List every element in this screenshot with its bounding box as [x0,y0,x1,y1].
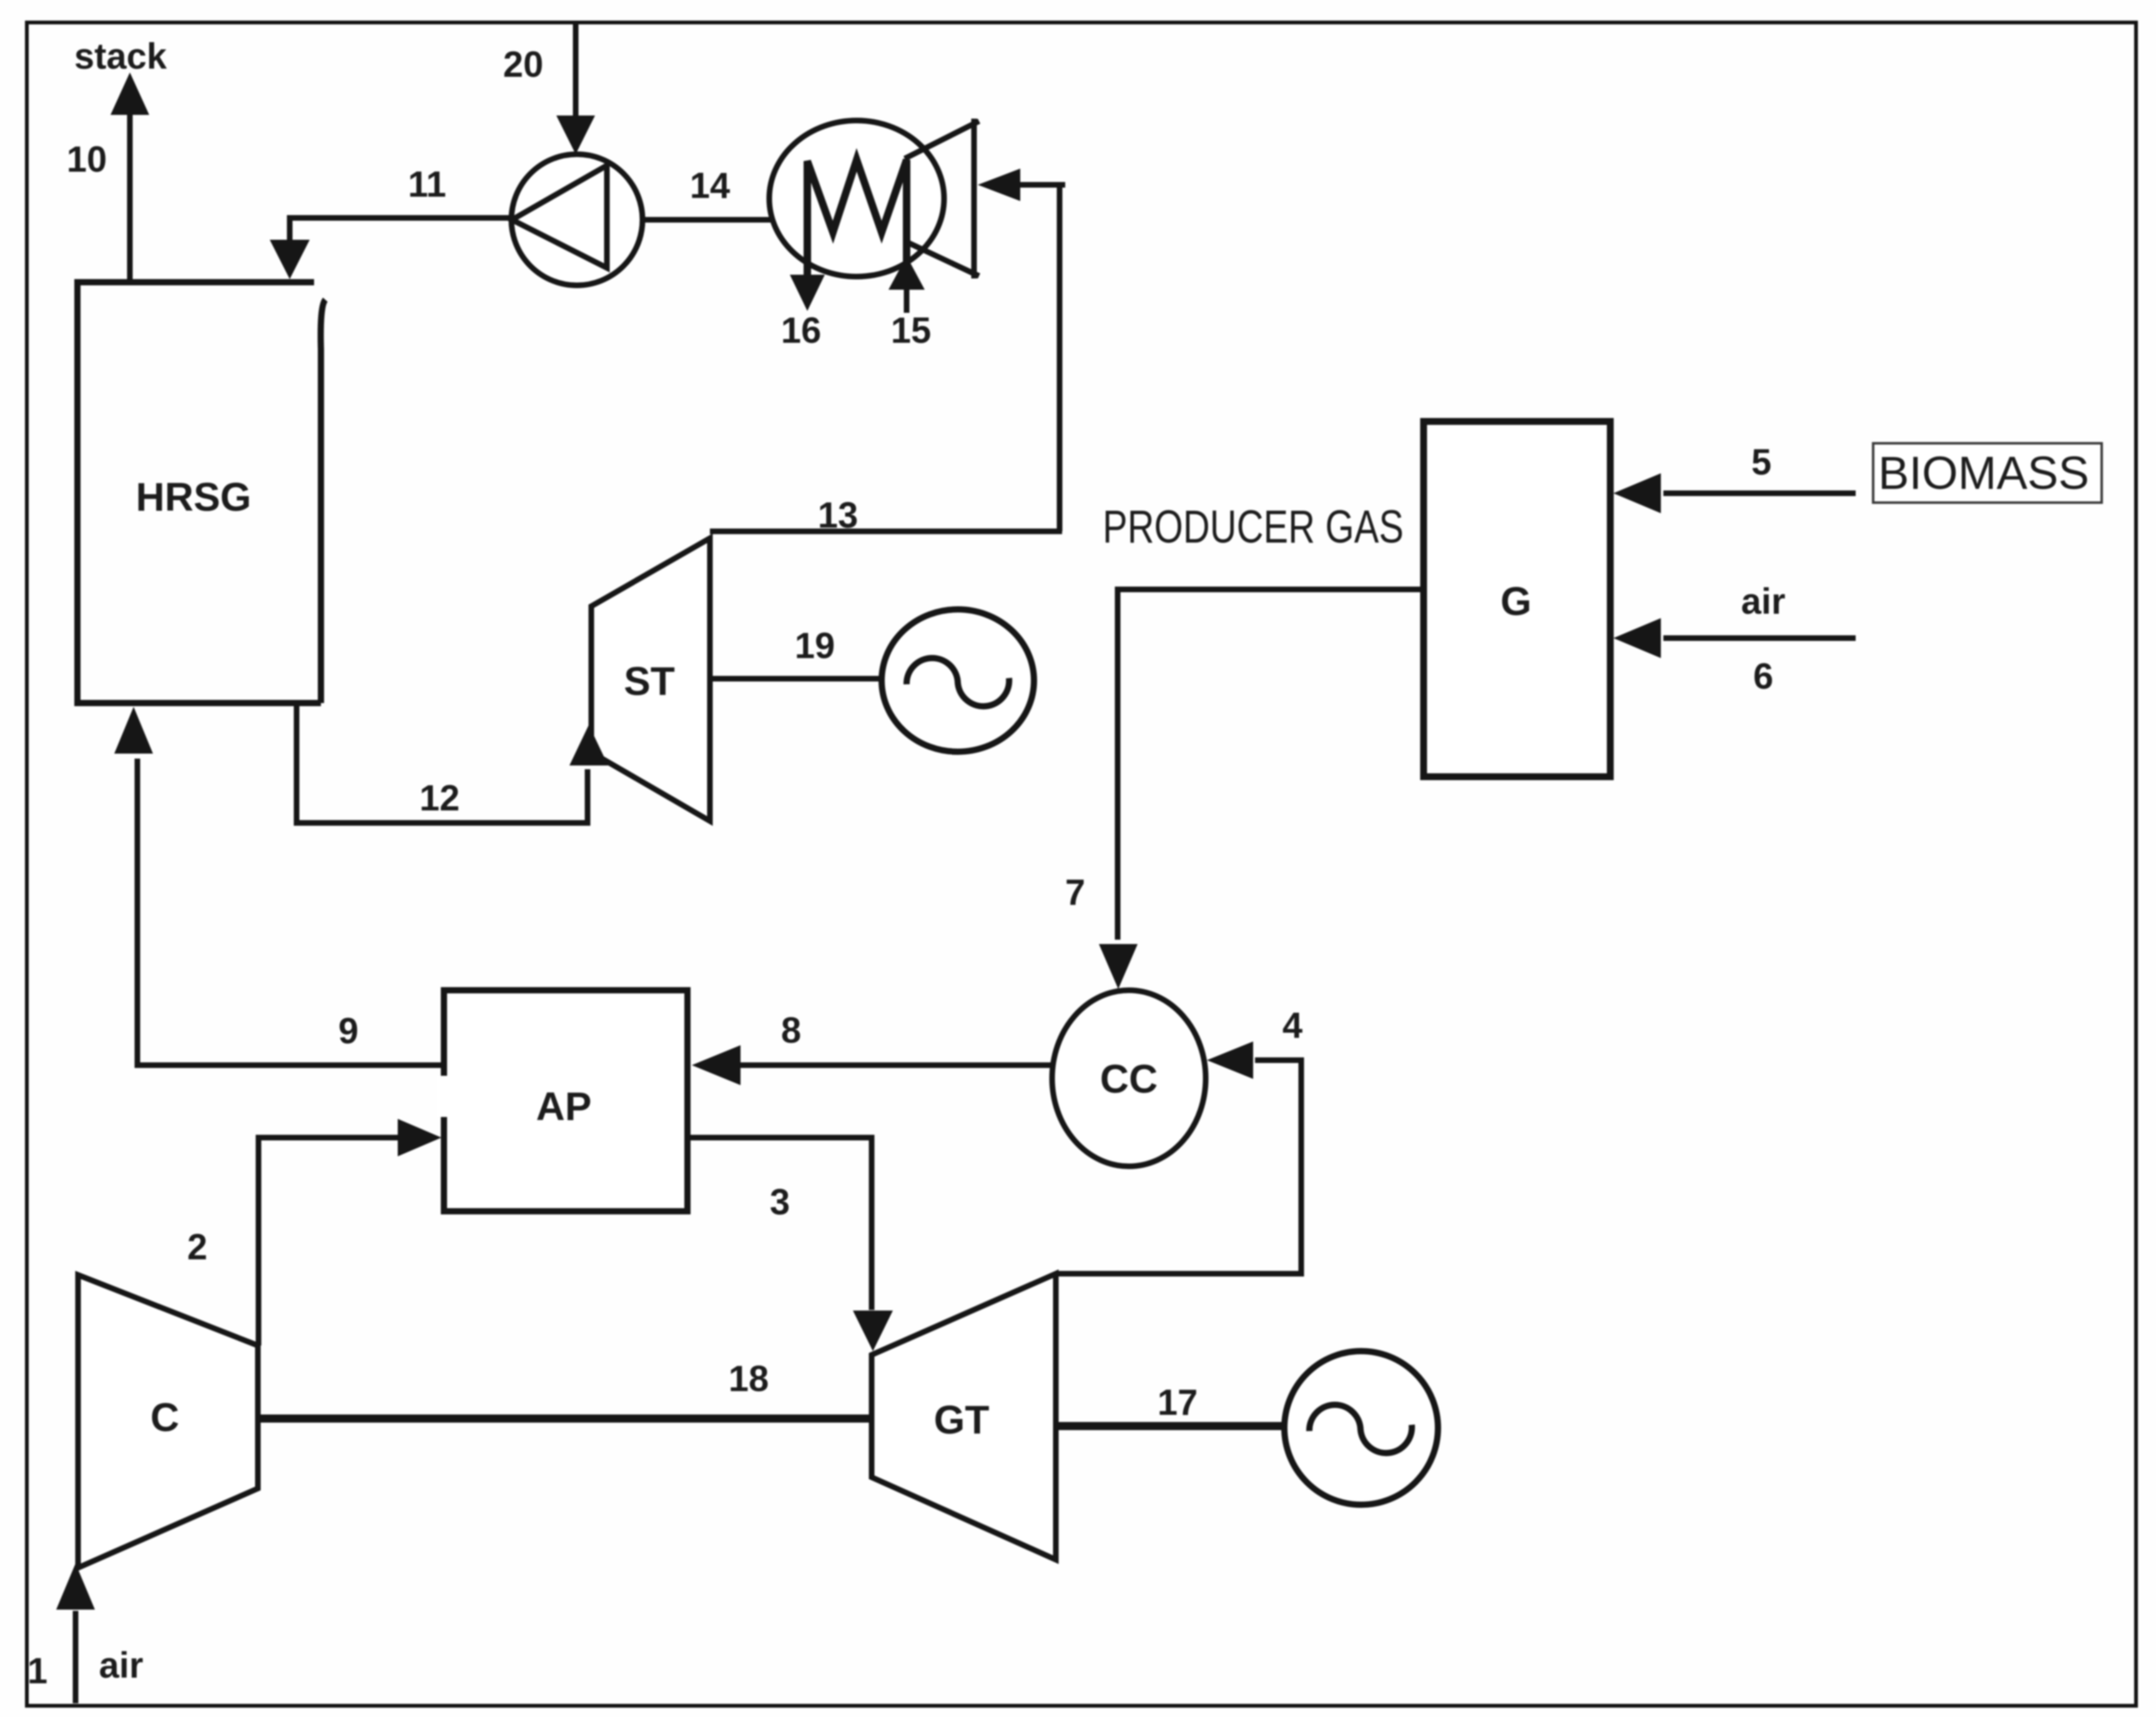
pump P1 triangle [512,165,607,268]
svg-text:HRSG: HRSG [136,475,252,519]
steam turbine ST [591,538,710,821]
wire 12 (HRSG bottom to ST inlet) [297,703,588,823]
svg-text:17: 17 [1158,1382,1198,1423]
generator G2 sine [1309,1405,1412,1453]
svg-text:air: air [1741,581,1786,622]
shaft 18 (C to GT) [258,1415,872,1423]
svg-text:16: 16 [781,310,822,351]
wire into fan (from producer gas riser) [1018,182,1065,188]
heat exchanger HX circle [769,121,944,277]
compressor C [78,1275,258,1568]
arrow 5 into G right [1613,473,1661,513]
arrow 9 up into HRSG bottom [114,707,153,754]
svg-text:PRODUCER GAS: PRODUCER GAS [1103,501,1404,553]
arrow air up into C [56,1563,95,1610]
arrow into fan right side [978,169,1020,201]
arrow 2 into AP left [398,1119,441,1156]
svg-text:stack: stack [74,36,167,77]
combustion chamber CC [1052,990,1206,1166]
svg-text:12: 12 [420,778,460,819]
wire 11 (pump to HRSG) [290,218,511,247]
svg-text:10: 10 [67,139,107,180]
arrow into pump top [556,116,595,154]
riser wire from line 13 to fan [1057,185,1063,531]
arrow 6 into G right [1613,618,1661,658]
svg-text:C: C [150,1395,179,1440]
arrow 4 into CC right [1207,1041,1253,1079]
svg-text:9: 9 [338,1011,358,1051]
arrow 16 out (down) [790,275,825,311]
svg-text:air: air [99,1645,144,1686]
svg-text:11: 11 [408,164,446,205]
svg-text:20: 20 [503,44,544,85]
svg-text:4: 4 [1282,1005,1302,1046]
svg-text:8: 8 [781,1010,801,1051]
arrow 8 into AP right [692,1045,741,1085]
fan trapezoid on heat exchanger [905,119,979,278]
HX zigzag coil [807,160,907,282]
arrow 15 in (up) with stem [904,284,910,313]
wire 4 (GT to CC) [1056,1060,1301,1274]
svg-text:15: 15 [891,310,932,351]
svg-text:2: 2 [187,1227,207,1267]
arrow 12 up into ST [569,725,608,765]
wire 20 (into pump) [573,22,579,119]
svg-text:18: 18 [729,1359,769,1399]
svg-text:19: 19 [795,626,835,666]
wire 14 (HX to pump) [643,217,774,223]
wire 3 (AP to GT) [687,1138,872,1310]
svg-text:7: 7 [1065,872,1085,913]
AP left border gap [437,1076,451,1117]
wire 19 (ST to generator) [710,676,887,682]
generator G1 circle [882,609,1034,752]
wire 9 (AP to HRSG) [137,759,444,1065]
wire 6 (air to G) [1663,636,1856,641]
shaft 17 (GT to generator) [1056,1422,1288,1430]
svg-text:5: 5 [1751,442,1771,483]
stack arrow (stream 10) [111,72,149,282]
svg-text:BIOMASS: BIOMASS [1878,447,2089,499]
svg-text:GT: GT [934,1397,990,1442]
svg-text:ST: ST [624,659,675,704]
svg-text:G: G [1500,579,1532,624]
HRSG box [77,282,325,703]
air inlet wire (stream 1) [73,1611,79,1703]
air preheater AP box [444,990,687,1211]
svg-text:13: 13 [818,495,859,536]
wire 8 (CC to AP) [737,1063,1052,1068]
arrow 7 into CC top [1099,944,1138,989]
gas turbine GT [872,1274,1056,1560]
svg-text:14: 14 [690,165,731,206]
wire 5 (BIOMASS to G) [1663,491,1856,496]
svg-text:AP: AP [536,1084,592,1129]
BIOMASS box [1873,443,2102,503]
arrow into HRSG top [270,240,310,279]
producer gas wire (G to riser) [1118,589,1424,940]
arrow 3 down into GT [853,1311,893,1351]
svg-text:1: 1 [27,1651,47,1691]
svg-text:6: 6 [1753,656,1773,697]
pump P1 circle [511,154,642,285]
generator G2 circle [1284,1351,1438,1505]
gasifier G box [1424,421,1610,777]
wire 2 (C to AP) [258,1138,400,1346]
svg-text:3: 3 [770,1182,790,1223]
wire 13 (ST top to riser) [710,529,1062,534]
generator G1 sine [907,658,1009,706]
svg-text:CC: CC [1100,1056,1158,1101]
